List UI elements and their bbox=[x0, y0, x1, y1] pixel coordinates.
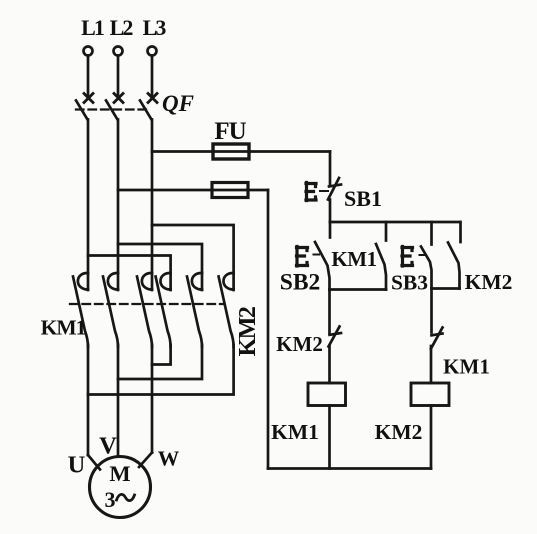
wire coil KM2 bottom bbox=[430, 406, 433, 469]
wire L1 lead bbox=[87, 56, 90, 96]
contactor linkage dashed bbox=[70, 303, 224, 305]
svg-text:FU: FU bbox=[214, 118, 246, 145]
svg-text:KM1: KM1 bbox=[331, 247, 376, 271]
wire SB2/KM1aux bottom join bbox=[330, 288, 387, 291]
wire SB1 top bbox=[329, 152, 332, 187]
wire L3 lead bbox=[151, 56, 154, 96]
wire motor diag U bbox=[88, 455, 100, 470]
svg-text:KM1: KM1 bbox=[41, 316, 86, 340]
breaker QF linkage dashed bbox=[76, 108, 150, 110]
pushbutton SB1 (NC stop) bbox=[306, 183, 316, 201]
terminal circle L3 bbox=[148, 47, 157, 56]
svg-text:M: M bbox=[109, 461, 130, 486]
wire L3 to KM2 pole3 bbox=[152, 225, 234, 273]
pushbutton SB3 (NO start rev) bbox=[430, 222, 433, 245]
breaker QF pole 3 bbox=[148, 94, 157, 103]
motor M circle bbox=[90, 457, 151, 518]
terminal circle L1 bbox=[84, 47, 93, 56]
svg-text:3: 3 bbox=[105, 487, 116, 512]
wire coil KM1 bottom bbox=[328, 406, 331, 469]
svg-text:W: W bbox=[158, 447, 180, 471]
wire feeder L1 bbox=[87, 120, 90, 274]
breaker QF pole 2 bbox=[114, 94, 123, 103]
contact KM2 interlock (NC) bbox=[330, 333, 342, 335]
fuse FU lower bbox=[212, 183, 248, 198]
svg-text:SB1: SB1 bbox=[344, 186, 382, 211]
wire control bottom rail bbox=[268, 467, 431, 470]
wire control left rail bbox=[267, 190, 270, 469]
wire SB1 bottom bbox=[329, 200, 332, 223]
wire KM1 pole1 output to motor U bbox=[87, 345, 90, 455]
terminal circle L2 bbox=[114, 47, 123, 56]
contactor KM2 main pole 3 bbox=[223, 273, 233, 290]
svg-text:KM1: KM1 bbox=[271, 420, 319, 444]
breaker QF pole 1 bbox=[84, 94, 93, 103]
wire SB3/KM2aux bottom join bbox=[432, 287, 460, 290]
wire motor diag W bbox=[139, 453, 152, 468]
wire KM1 pole3 output to motor W bbox=[151, 345, 154, 453]
svg-text:QF: QF bbox=[162, 91, 194, 116]
svg-text:SB2: SB2 bbox=[280, 270, 321, 296]
contactor KM1 main pole 1 bbox=[78, 273, 88, 290]
fuse FU upper bbox=[213, 144, 249, 159]
svg-text:L3: L3 bbox=[143, 15, 167, 40]
svg-text:U: U bbox=[68, 452, 86, 479]
wire control top branch bbox=[330, 221, 460, 224]
svg-text:KM2: KM2 bbox=[235, 307, 261, 356]
svg-text:KM2: KM2 bbox=[465, 270, 513, 294]
coil KM1 bbox=[308, 383, 346, 406]
wire L2 to KM2 pole2 bbox=[118, 244, 202, 273]
wire L1 to KM2 pole1 bbox=[88, 256, 171, 274]
wire fuse1 branch bbox=[152, 150, 330, 153]
contactor KM2 main pole 2 bbox=[192, 273, 202, 290]
svg-text:L2: L2 bbox=[110, 15, 134, 40]
svg-text:L1: L1 bbox=[81, 15, 104, 40]
svg-text:KM2: KM2 bbox=[276, 332, 323, 356]
contactor KM1 main pole 3 bbox=[142, 273, 152, 290]
wire interlock to coil KM1 bbox=[328, 346, 331, 383]
coil KM2 bbox=[411, 383, 449, 406]
wire KM1 pole2 output to motor V bbox=[117, 345, 120, 457]
wire interlock to coil KM2 bbox=[430, 346, 433, 383]
svg-text:KM1: KM1 bbox=[443, 355, 490, 379]
wire to KM2 interlock bbox=[328, 290, 331, 333]
wire KM2 pole2 output cross bbox=[118, 345, 202, 379]
contact KM1 interlock (NC) bbox=[432, 334, 443, 336]
contactor KM1 main pole 2 bbox=[108, 273, 118, 290]
contact KM1 aux (hold) bbox=[385, 222, 388, 241]
pushbutton SB2 (NO start fwd) bbox=[329, 222, 332, 238]
contact KM2 aux (hold) bbox=[459, 222, 462, 242]
svg-text:SB3: SB3 bbox=[391, 271, 428, 295]
svg-text:KM2: KM2 bbox=[375, 420, 423, 444]
wire feeder L3 bbox=[151, 120, 154, 274]
wire fuse2 branch bbox=[118, 189, 268, 192]
wire L2 lead bbox=[117, 56, 120, 96]
wire KM2 pole3 output cross bbox=[88, 345, 234, 395]
wire to KM1 interlock bbox=[430, 289, 433, 333]
svg-text:V: V bbox=[99, 433, 117, 460]
contactor KM2 main pole 1 bbox=[160, 273, 170, 290]
wire feeder L2 bbox=[117, 120, 120, 274]
wire KM2 pole1 output cross bbox=[152, 345, 171, 365]
